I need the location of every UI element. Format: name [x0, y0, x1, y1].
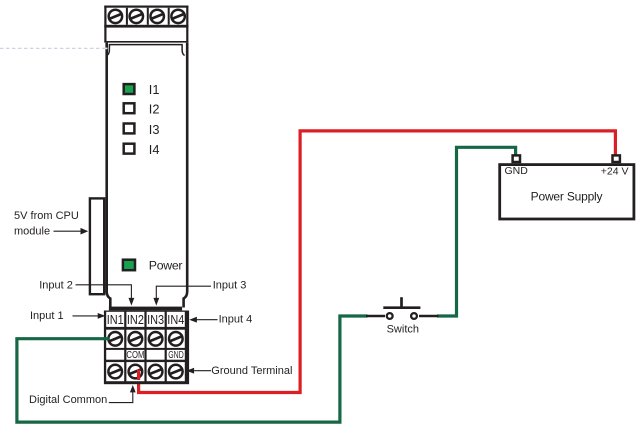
switch right contact	[411, 313, 417, 319]
svg-text:5V from CPU: 5V from CPU	[14, 210, 79, 222]
5V CPU connector tab	[90, 198, 104, 294]
screw terminal COM-1	[108, 365, 122, 379]
svg-text:Input 1: Input 1	[30, 310, 64, 322]
svg-text:IN4: IN4	[167, 313, 184, 327]
svg-text:I3: I3	[149, 122, 160, 137]
wire: red stub over COM screw	[137, 370, 140, 381]
svg-text:module: module	[14, 225, 50, 237]
LED Power	[123, 260, 135, 271]
module body outline	[107, 43, 188, 311]
pointer arrow Ground Terminal	[186, 368, 211, 374]
svg-text:COM: COM	[126, 350, 144, 361]
pointer arrow Input 1	[73, 313, 106, 319]
module faceplate lip	[107, 45, 185, 56]
svg-text:IN1: IN1	[107, 313, 124, 327]
svg-text:+24 V: +24 V	[601, 166, 629, 178]
screw terminal GND-1	[149, 365, 163, 379]
svg-text:I4: I4	[149, 142, 160, 157]
screw terminal GND-2 (ground terminal)	[169, 365, 183, 379]
svg-text:Ground Terminal: Ground Terminal	[211, 365, 292, 377]
svg-text:Input 2: Input 2	[39, 280, 73, 292]
wire: red from COM terminal down, right, up and right to power supply +24V terminal	[139, 131, 616, 393]
module top terminal housing	[104, 6, 188, 43]
LED I4	[124, 144, 135, 154]
svg-text:IN3: IN3	[147, 313, 164, 327]
screw terminal top 1	[109, 10, 122, 23]
wire: green from IN1 screw left, down, along bottom, up to switch left contact	[17, 316, 368, 422]
wire: green stub into IN1 screw	[104, 337, 109, 340]
switch right lead	[419, 315, 439, 318]
switch actuator bar	[383, 306, 420, 309]
row B cells (screw row 1)	[106, 330, 124, 348]
svg-text:Power Supply: Power Supply	[531, 189, 603, 203]
power supply box	[500, 165, 634, 219]
svg-text:Power: Power	[149, 259, 183, 273]
switch actuator stem	[400, 297, 403, 308]
bottom terminal block	[104, 311, 189, 385]
pointer line Digital Common	[109, 385, 136, 403]
wire: green from switch right contact, up and right to power supply GND terminal	[437, 147, 516, 316]
pointer line Input 2	[76, 285, 135, 306]
screw terminal COM-2	[129, 365, 143, 379]
screw terminal IN1	[108, 332, 122, 346]
guide dashed line gap over module wall	[103, 48, 107, 50]
switch S1 (pushbutton)	[366, 297, 439, 319]
LED I1	[124, 84, 135, 94]
svg-text:IN2: IN2	[127, 313, 144, 327]
row D cells (screw row 2)	[106, 362, 124, 381]
switch left contact	[387, 313, 393, 319]
switch left lead	[366, 315, 385, 318]
svg-text:I1: I1	[149, 82, 160, 97]
screw terminal IN2	[129, 332, 143, 346]
pointer arrow to CPU tab	[54, 228, 89, 235]
svg-text:GND: GND	[168, 350, 184, 361]
svg-text:Switch: Switch	[387, 323, 419, 335]
svg-text:Input 3: Input 3	[213, 280, 247, 292]
row C cells (COM/GND labels)	[106, 350, 124, 360]
LED I3	[124, 124, 135, 134]
screw terminal top 4	[171, 10, 184, 23]
pointer arrow Input 4	[189, 317, 217, 323]
pointer line Input 3	[153, 286, 211, 305]
power supply GND terminal post	[513, 155, 520, 162]
LED I2	[124, 103, 135, 113]
row A cells (IN labels)	[106, 312, 124, 327]
svg-text:I2: I2	[149, 102, 160, 117]
screw terminal top 3	[151, 10, 164, 23]
screw terminal IN4	[169, 332, 183, 346]
power supply +24V terminal post	[613, 155, 620, 162]
screw terminal top 2	[130, 10, 143, 23]
svg-text:Input 4: Input 4	[219, 314, 253, 326]
svg-text:GND: GND	[505, 165, 529, 177]
svg-text:Digital Common: Digital Common	[29, 394, 107, 406]
guide dashed line	[0, 47, 107, 49]
screw terminal IN3	[149, 332, 163, 346]
